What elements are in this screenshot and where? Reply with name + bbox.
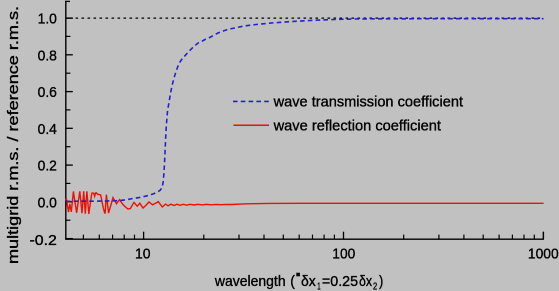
blue wave transmission coefficient curve: [66, 19, 544, 202]
y axis: [65, 1, 67, 239]
x axis right end cap: [542, 232, 544, 239]
dotted reference line y=1.0: [66, 17, 73, 19]
svg-text:1.0: 1.0: [38, 11, 57, 28]
x axis title: wavelength (*dx1=0.25dx2): [214, 273, 383, 291]
svg-text:=0.25: =0.25: [322, 273, 358, 290]
svg-text:δx: δx: [301, 273, 316, 290]
svg-text:): ): [379, 273, 383, 290]
svg-text:-0.2: -0.2: [30, 232, 57, 249]
svg-text:0.2: 0.2: [38, 158, 57, 175]
svg-text:10: 10: [135, 246, 151, 263]
svg-text:multigrid r.m.s. / reference r: multigrid r.m.s. / reference r.m.s.: [5, 6, 22, 264]
svg-text:0.0: 0.0: [38, 194, 57, 211]
y axis top cap: [65, 0, 70, 2]
svg-text:δx: δx: [359, 273, 373, 290]
svg-text:2: 2: [373, 281, 378, 291]
svg-text:(: (: [290, 273, 295, 290]
x axis major ticks: [143, 232, 145, 240]
y axis major ticks: [66, 17, 73, 19]
x axis: [65, 238, 544, 240]
svg-text:wave transmission coefficient: wave transmission coefficient: [273, 94, 464, 111]
svg-text:wavelength: wavelength: [214, 273, 286, 290]
svg-text:1: 1: [317, 281, 321, 291]
svg-text:1000: 1000: [528, 246, 559, 263]
red wave reflection coefficient curve: [66, 191, 544, 214]
svg-text:100: 100: [332, 246, 355, 263]
x axis minor ticks: [82, 235, 84, 240]
legend blue dashed sample: [233, 100, 269, 102]
svg-text:0.6: 0.6: [38, 84, 57, 101]
legend red solid sample: [234, 124, 270, 126]
svg-text:0.4: 0.4: [38, 121, 57, 138]
y axis minor ticks: [66, 35, 71, 37]
svg-text:0.8: 0.8: [38, 47, 57, 64]
svg-text:wave reflection coefficient: wave reflection coefficient: [273, 117, 442, 134]
